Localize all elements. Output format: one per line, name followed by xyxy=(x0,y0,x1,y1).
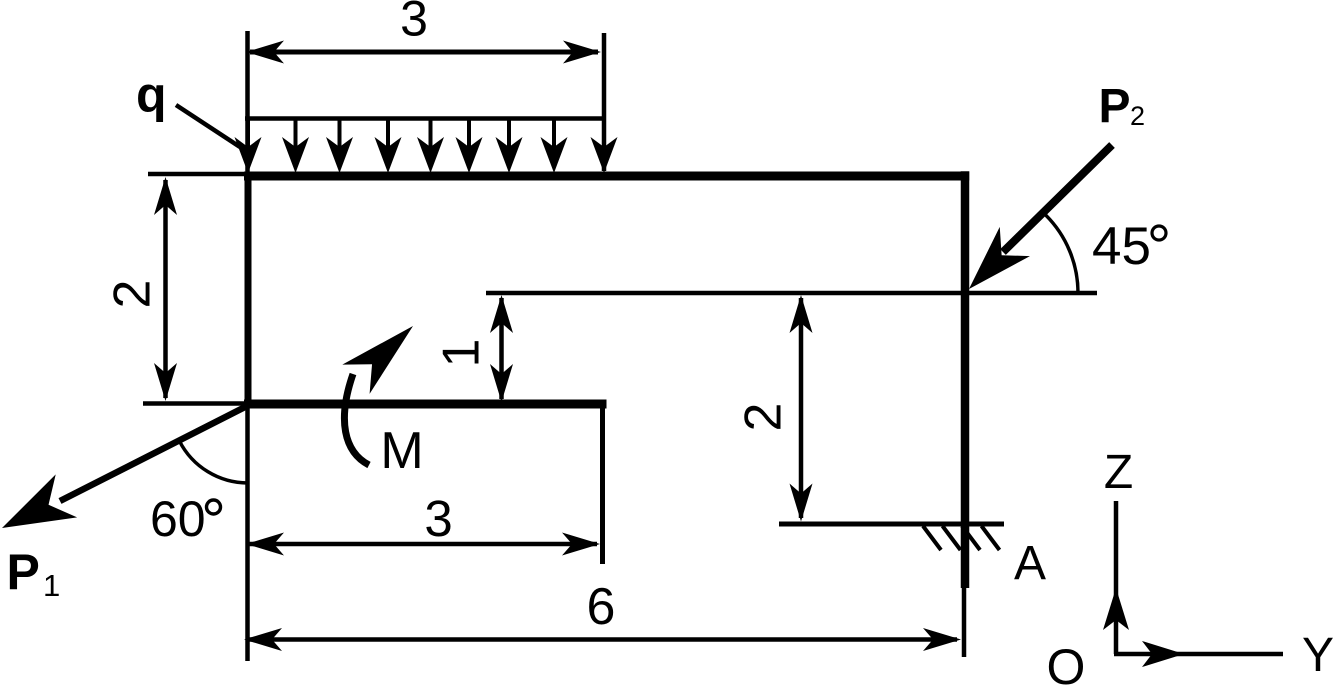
ground hatch 3 xyxy=(962,526,980,550)
axis Z line xyxy=(1114,501,1119,654)
load arrow 8 xyxy=(541,120,568,173)
arrowhead bottom dim 3 right xyxy=(562,533,600,556)
arrowhead left dim 2 bottom xyxy=(154,363,177,401)
wire: distributed load baseline xyxy=(245,116,605,121)
label 2 (left dimension, rotated) xyxy=(104,280,162,309)
arrowhead bottom dim 3 left xyxy=(246,533,284,556)
wire: bottom dimension line 6 xyxy=(248,637,957,642)
wire: top dimension line 3 xyxy=(250,50,598,55)
force P2 shaft xyxy=(1003,145,1112,252)
arrowhead of axis Y xyxy=(1142,641,1184,667)
degree circle of 60 label xyxy=(207,500,221,514)
arrowhead of axis Z xyxy=(1103,588,1129,630)
wire: extension below lower beam right end xyxy=(600,404,605,564)
wire: middle horizontal reference line xyxy=(486,291,1097,296)
axis Y line xyxy=(1114,652,1283,657)
arc of 45 degree angle xyxy=(1046,215,1078,293)
label 1 (rotated) xyxy=(433,339,491,368)
load arrow 7 xyxy=(496,120,523,173)
ground hatch 2 xyxy=(943,526,961,550)
svg-text:M: M xyxy=(380,422,423,480)
arrowhead of moment M xyxy=(342,311,426,393)
svg-text:Y: Y xyxy=(1302,629,1334,682)
svg-text:2: 2 xyxy=(735,403,793,432)
wire: right dimension line 2 xyxy=(799,298,804,518)
svg-text:1: 1 xyxy=(43,568,60,603)
arrowhead top dim 3 left xyxy=(246,41,284,64)
beam: lower horizontal member xyxy=(244,400,607,409)
label 2 (right dimension, rotated) xyxy=(735,403,793,432)
svg-text:60: 60 xyxy=(150,491,206,547)
beam: left vertical member xyxy=(245,172,252,408)
beam: top horizontal member xyxy=(244,172,969,181)
wire: extension left of top-left corner xyxy=(148,172,248,177)
svg-text:Z: Z xyxy=(1104,446,1133,499)
svg-text:45: 45 xyxy=(1092,217,1151,276)
svg-text:q: q xyxy=(136,67,167,123)
wire: left dimension line 2 xyxy=(163,180,168,398)
arc of 60 degree angle xyxy=(179,441,248,483)
wire: right lower extension line xyxy=(962,588,967,657)
load arrow 1 xyxy=(235,120,262,173)
svg-text:O: O xyxy=(1047,639,1086,685)
arrowhead bottom dim 6 right xyxy=(923,628,961,651)
arrowhead of P2 xyxy=(954,227,1030,304)
wire: dimension line 1 xyxy=(499,298,504,399)
force P1 shaft xyxy=(60,405,249,501)
beam: right vertical member xyxy=(961,171,970,588)
load arrow 2 xyxy=(282,120,309,173)
load arrow 3 xyxy=(326,120,353,173)
wire: bottom dimension line 3 xyxy=(249,542,597,547)
svg-text:2: 2 xyxy=(104,280,162,309)
degree circle of 45 label xyxy=(1152,226,1166,240)
leader line from q label xyxy=(176,105,240,147)
arrowhead top dim 3 right xyxy=(563,41,601,64)
svg-text:1: 1 xyxy=(433,339,491,368)
arrowhead dim 1 top xyxy=(490,295,513,333)
arrowhead of P1 xyxy=(0,474,77,549)
load arrow 4 xyxy=(375,120,402,173)
load arrow 6 xyxy=(456,120,483,173)
ground hatch 4 xyxy=(982,526,1000,550)
arrowhead bottom dim 6 left xyxy=(244,628,282,651)
arrowhead dim 1 bottom xyxy=(490,364,513,402)
arrowhead right dim 2 top xyxy=(790,295,813,333)
svg-text:3: 3 xyxy=(424,490,452,547)
svg-text:6: 6 xyxy=(587,578,616,636)
moment M curved arrow xyxy=(344,374,369,465)
arrowhead right dim 2 bottom xyxy=(790,484,813,522)
arrowhead left dim 2 top xyxy=(154,177,177,215)
wire: left vertical extension line x=247 xyxy=(245,31,250,661)
ground line at support A xyxy=(779,522,1004,527)
wire: extension left of lower beam xyxy=(143,401,248,406)
svg-text:2: 2 xyxy=(1130,101,1145,131)
load arrow 9 xyxy=(591,120,618,173)
ground hatch 1 xyxy=(923,526,941,550)
svg-text:A: A xyxy=(1014,537,1046,590)
distributed load arrows q xyxy=(235,120,618,173)
load arrow 5 xyxy=(417,120,444,173)
svg-text:P: P xyxy=(7,544,40,600)
svg-text:P: P xyxy=(1099,80,1131,133)
svg-text:3: 3 xyxy=(400,0,428,47)
wire: right extension line of top dimension x=602 xyxy=(602,33,607,171)
